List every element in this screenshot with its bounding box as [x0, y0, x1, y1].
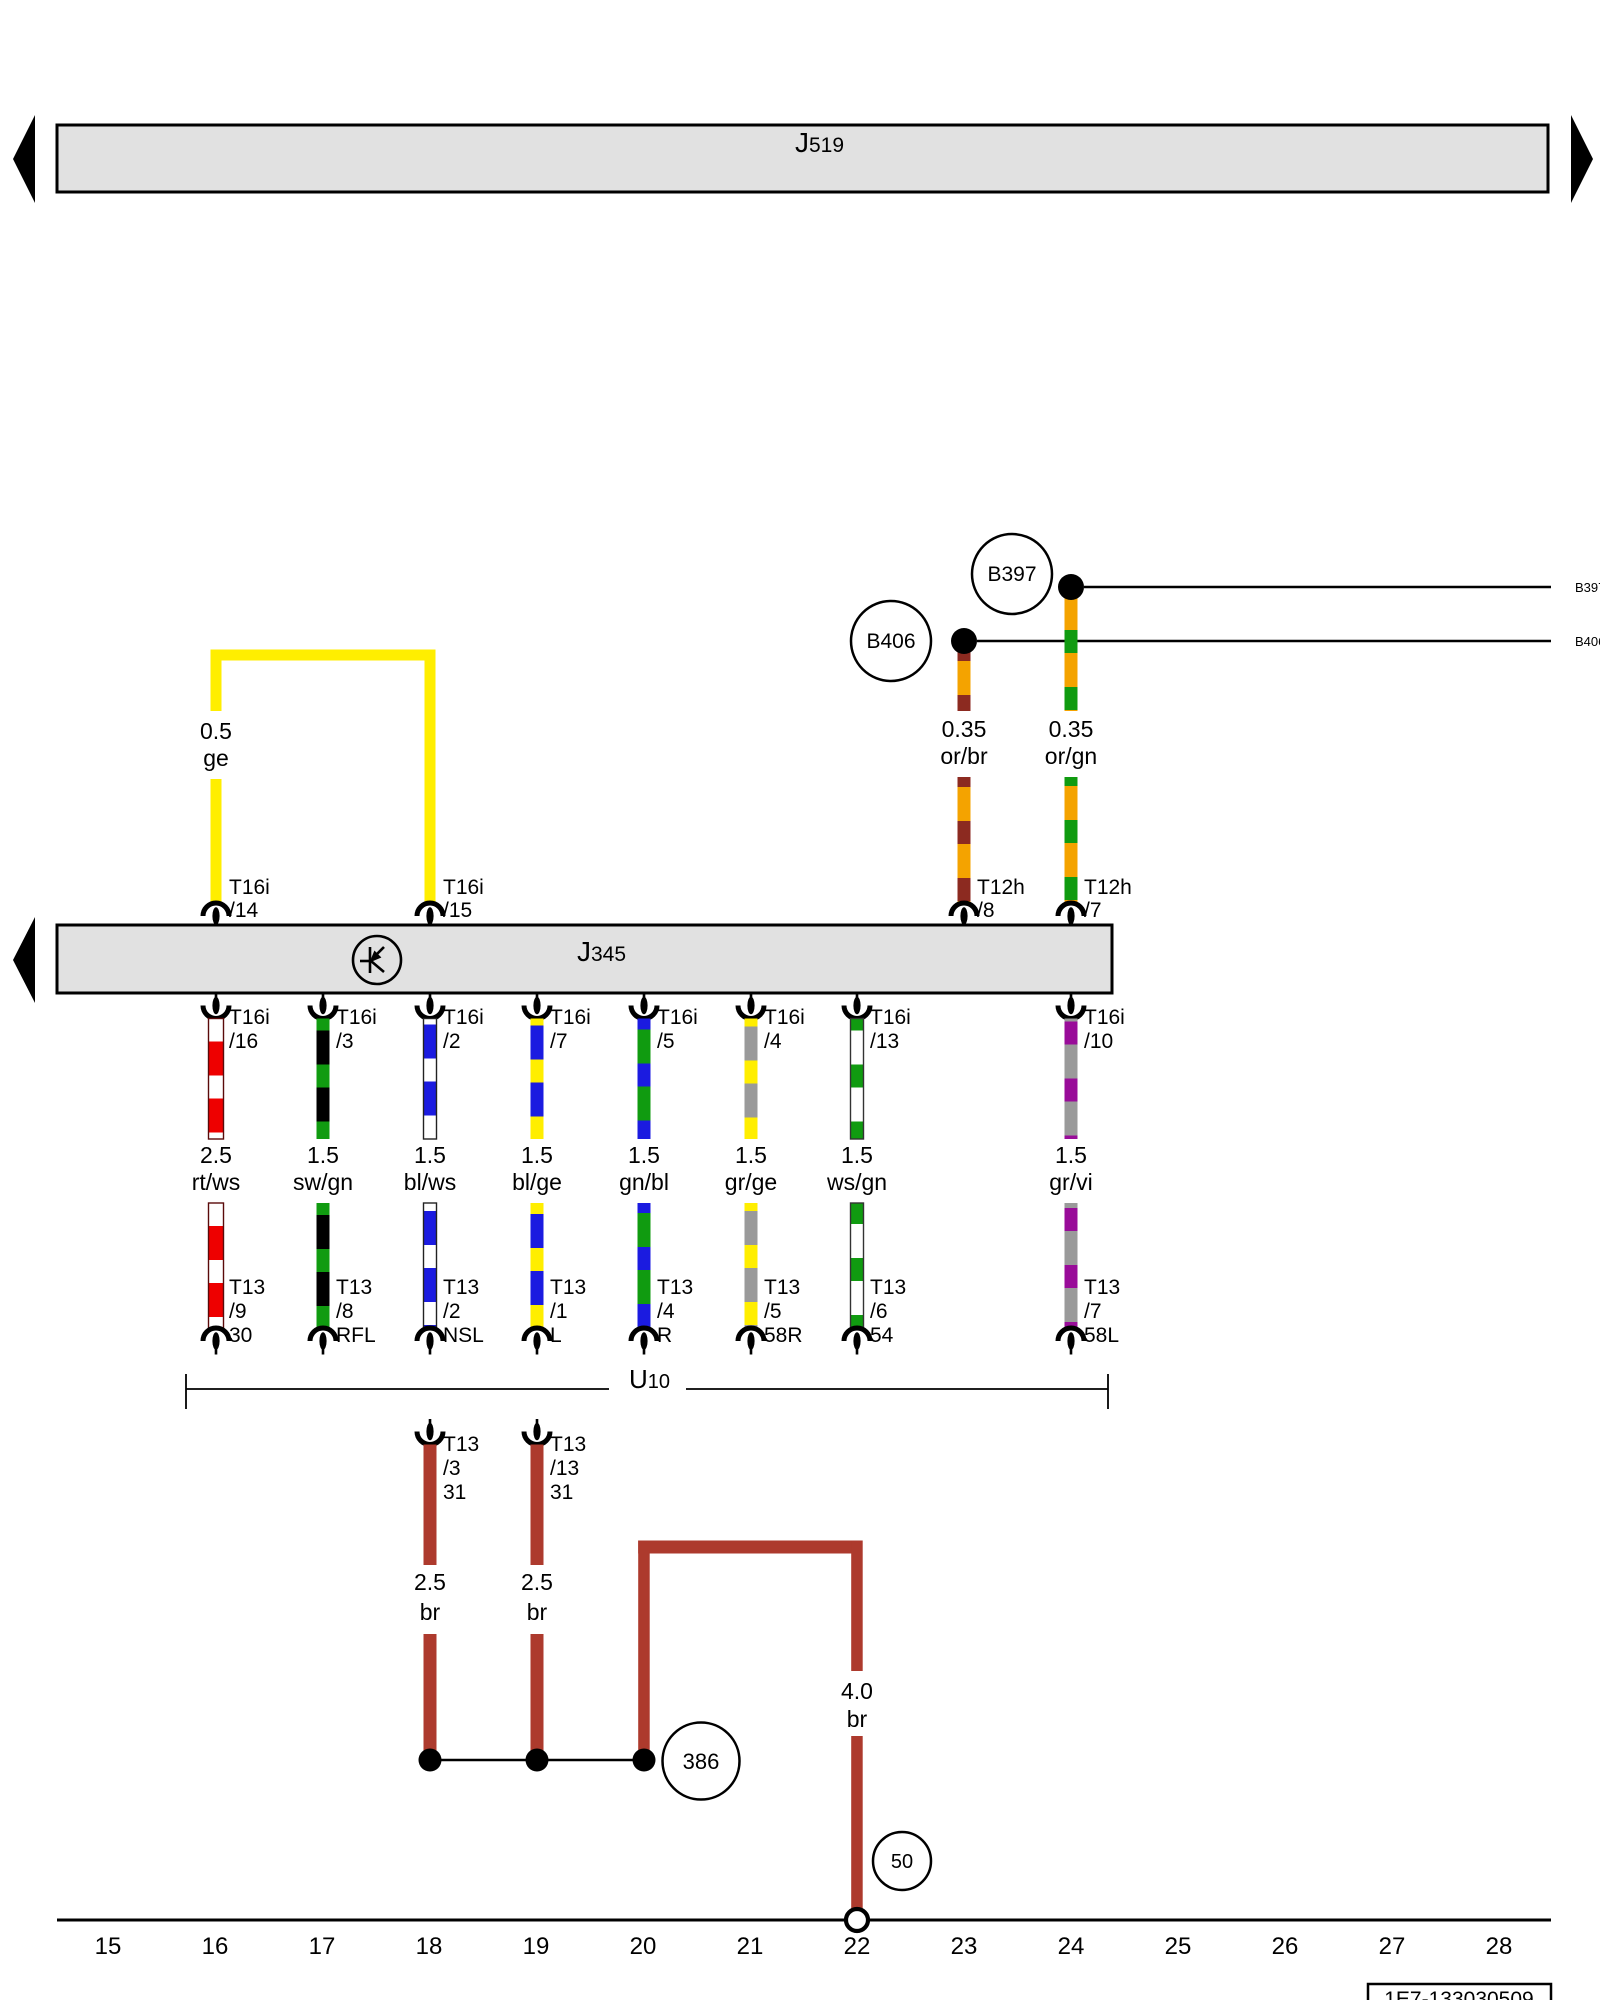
svg-text:T16i: T16i [229, 1006, 270, 1029]
svg-text:1E7-133030509: 1E7-133030509 [1384, 1988, 1533, 2000]
wire segment 1.5 gr/vi upper [1065, 1019, 1078, 1140]
svg-text:gr/ge: gr/ge [725, 1169, 777, 1195]
svg-text:0.5: 0.5 [200, 718, 232, 744]
svg-text:1.5: 1.5 [735, 1142, 767, 1168]
svg-text:T16i: T16i [229, 876, 270, 899]
wire to B397 (right) [1084, 586, 1551, 589]
wire segment 1.5 gr/ge upper [745, 1019, 758, 1140]
svg-text:/5: /5 [764, 1300, 782, 1323]
svg-text:or/gn: or/gn [1045, 743, 1097, 769]
svg-text:2.5: 2.5 [414, 1569, 446, 1595]
svg-text:L: L [550, 1324, 562, 1347]
wire segment 1.5 bl/ws upper [424, 1019, 437, 1140]
svg-text:/3: /3 [443, 1457, 461, 1480]
svg-text:/1: /1 [550, 1300, 568, 1323]
svg-text:br: br [527, 1599, 548, 1625]
connector pin T16i/3 [310, 993, 336, 1019]
node junction dot B406 [951, 628, 977, 654]
svg-text:or/br: or/br [940, 743, 988, 769]
wire segment 0.35 or/gn upper [1065, 587, 1078, 711]
svg-text:17: 17 [309, 1933, 336, 1960]
continuation arrow right of J519 [1571, 115, 1593, 203]
svg-text:T16i: T16i [336, 1006, 377, 1029]
wire segment 1.5 gr/ge lower [745, 1203, 758, 1328]
wire segment 0.5 ge left vertical lower [211, 779, 222, 903]
wire segment 2.5 br right lower [531, 1634, 544, 1760]
svg-text:T16i: T16i [764, 1006, 805, 1029]
svg-text:54: 54 [870, 1324, 894, 1347]
wire segment 0.35 or/gn lower [1065, 777, 1078, 903]
label T16i/16 text [229, 1006, 270, 1053]
svg-text:T13: T13 [870, 1276, 906, 1299]
svg-text:T12h: T12h [1084, 876, 1132, 899]
wire segment 0.35 or/br upper [958, 641, 971, 711]
connector pin T16i/14 [203, 903, 229, 930]
label T13/7 58L text [1084, 1276, 1120, 1347]
svg-text:T13: T13 [550, 1433, 586, 1456]
svg-text:gn/bl: gn/bl [619, 1169, 669, 1195]
label T16i/14 text [229, 876, 270, 922]
ground terminal ring at 22 [846, 1909, 868, 1931]
svg-text:18: 18 [416, 1933, 443, 1960]
label T13/1 L text [550, 1276, 586, 1347]
svg-text:T16i: T16i [443, 876, 484, 899]
sensor B406 circle [851, 601, 931, 681]
svg-text:T13: T13 [764, 1276, 800, 1299]
wire segment 0.35 or/br lower [958, 777, 971, 903]
connector pin T13/4 [631, 1328, 657, 1355]
continuation arrow left of J345 [13, 917, 35, 1003]
bottom grid rail line [57, 1919, 1551, 1922]
svg-text:/2: /2 [443, 1030, 461, 1053]
connector pin T16i/7 [524, 993, 550, 1019]
svg-text:T16i: T16i [443, 1006, 484, 1029]
svg-text:B406: B406 [866, 630, 915, 653]
svg-text:br: br [420, 1599, 441, 1625]
svg-text:/10: /10 [1084, 1030, 1113, 1053]
svg-text:24: 24 [1058, 1933, 1085, 1960]
svg-text:15: 15 [95, 1933, 122, 1960]
wire segment 2.5 br right upper [531, 1445, 544, 1566]
wire segment 2.5 br left upper [424, 1445, 437, 1566]
svg-text:/3: /3 [336, 1030, 354, 1053]
svg-text:31: 31 [443, 1481, 466, 1504]
label T13/3 31 text [443, 1433, 479, 1504]
svg-text:U10: U10 [629, 1364, 670, 1394]
svg-text:20: 20 [630, 1933, 657, 1960]
wire segment 1.5 sw/gn lower [317, 1203, 330, 1328]
wire segment 1.5 bl/ge upper [531, 1019, 544, 1140]
ground connection 386 circle [663, 1723, 740, 1800]
svg-text:gr/vi: gr/vi [1049, 1169, 1092, 1195]
junction dot at T13/13 wire [526, 1749, 549, 1772]
harness connector bracket U10 [186, 1374, 1108, 1409]
svg-text:22: 22 [844, 1933, 871, 1960]
svg-text:0.35: 0.35 [1049, 716, 1094, 742]
wire segment 0.5 ge left vertical upper [211, 650, 222, 711]
document number box 1E7-133030509 [1368, 1984, 1551, 2000]
connector pin T16i/2 [417, 993, 443, 1019]
svg-text:1.5: 1.5 [521, 1142, 553, 1168]
label T16i/4 text [764, 1006, 805, 1053]
label T13/6 54 text [870, 1276, 906, 1347]
wire segment 1.5 gn/bl lower [638, 1203, 651, 1328]
label T16i/5 text [657, 1006, 698, 1053]
svg-text:/4: /4 [657, 1300, 675, 1323]
svg-text:T16i: T16i [550, 1006, 591, 1029]
svg-text:ws/gn: ws/gn [826, 1169, 887, 1195]
svg-text:B397: B397 [1575, 580, 1600, 595]
wire segment 1.5 bl/ge lower [531, 1203, 544, 1328]
connector pin T13/8 [310, 1328, 336, 1355]
svg-text:25: 25 [1165, 1933, 1192, 1960]
connector pin T13/2 [417, 1328, 443, 1355]
connector pin T13/9 [203, 1328, 229, 1355]
wire segment 0.5 ge horizontal top [211, 650, 436, 661]
svg-text:/5: /5 [657, 1030, 675, 1053]
internal lamp-monitor symbol in J345 [353, 936, 401, 984]
label T16i/2 text [443, 1006, 484, 1053]
svg-text:/8: /8 [977, 899, 995, 922]
wire segment 1.5 bl/ws lower [424, 1203, 437, 1328]
svg-text:58L: 58L [1084, 1324, 1119, 1347]
svg-text:RFL: RFL [336, 1324, 376, 1347]
svg-text:R: R [657, 1324, 672, 1347]
wire segment 2.5 br left lower [424, 1634, 437, 1760]
connector pin T16i/15 [417, 903, 443, 930]
svg-text:/4: /4 [764, 1030, 782, 1053]
svg-text:50: 50 [891, 1851, 913, 1873]
label T16i/7 text [550, 1006, 591, 1053]
svg-text:T16i: T16i [657, 1006, 698, 1029]
svg-text:/7: /7 [1084, 899, 1102, 922]
connector pin T12h/8 [951, 903, 977, 930]
svg-text:27: 27 [1379, 1933, 1406, 1960]
control unit J519 bar [57, 125, 1548, 192]
svg-text:bl/ws: bl/ws [404, 1169, 456, 1195]
connector pin T13/3 [417, 1419, 443, 1445]
svg-text:1.5: 1.5 [628, 1142, 660, 1168]
wire segment 1.5 gn/bl upper [638, 1019, 651, 1140]
continuation arrow left of J519 [13, 115, 35, 203]
label T16i/13 text [870, 1006, 911, 1053]
wire ground bus line [430, 1759, 644, 1762]
label T13/9 30 text [229, 1276, 265, 1347]
label T16i/3 text [336, 1006, 377, 1053]
wire segment 4.0 br right vertical lower [851, 1736, 863, 1910]
svg-text:T13: T13 [657, 1276, 693, 1299]
connector pin T13/1 [524, 1328, 550, 1355]
junction dot at 4.0 br wire [633, 1749, 656, 1772]
label T12h/8 text [977, 876, 1025, 922]
label T13/5 58R text [764, 1276, 803, 1347]
svg-text:386: 386 [683, 1749, 720, 1774]
svg-text:16: 16 [202, 1933, 229, 1960]
connector pin T16i/10 [1058, 993, 1084, 1019]
junction dot at T13/3 wire [419, 1749, 442, 1772]
connector pin T16i/4 [738, 993, 764, 1019]
connector pin T16i/16 [203, 993, 229, 1019]
svg-text:sw/gn: sw/gn [293, 1169, 353, 1195]
svg-text:23: 23 [951, 1933, 978, 1960]
svg-text:rt/ws: rt/ws [192, 1169, 241, 1195]
svg-text:T12h: T12h [977, 876, 1025, 899]
svg-text:19: 19 [523, 1933, 550, 1960]
svg-text:31: 31 [550, 1481, 573, 1504]
connector pin T12h/7 [1058, 903, 1084, 930]
svg-text:NSL: NSL [443, 1324, 484, 1347]
connector pin T13/6 [844, 1328, 870, 1355]
svg-text:bl/ge: bl/ge [512, 1169, 562, 1195]
wire segment 0.5 ge right vertical [425, 650, 436, 904]
wire segment 2.5 rt/ws upper [209, 1019, 224, 1140]
svg-text:1.5: 1.5 [307, 1142, 339, 1168]
svg-text:/7: /7 [550, 1030, 568, 1053]
wire segment 1.5 ws/gn upper [851, 1019, 864, 1140]
wire segment 1.5 sw/gn upper [317, 1019, 330, 1140]
grid numbers 15-28 [95, 1933, 1513, 1960]
svg-text:/7: /7 [1084, 1300, 1102, 1323]
svg-text:26: 26 [1272, 1933, 1299, 1960]
connector pin T13/13 [524, 1419, 550, 1445]
svg-text:ge: ge [203, 745, 229, 771]
terminal 50 circle [873, 1832, 931, 1890]
svg-text:/16: /16 [229, 1030, 258, 1053]
svg-text:2.5: 2.5 [521, 1569, 553, 1595]
svg-text:/8: /8 [336, 1300, 354, 1323]
wire segment 4.0 br horizontal [638, 1541, 862, 1554]
wire segment 2.5 rt/ws lower [209, 1203, 224, 1328]
wire segment 1.5 ws/gn lower [851, 1203, 864, 1328]
svg-text:T13: T13 [336, 1276, 372, 1299]
svg-text:30: 30 [229, 1324, 252, 1347]
svg-text:28: 28 [1486, 1933, 1513, 1960]
svg-text:T16i: T16i [1084, 1006, 1125, 1029]
svg-text:4.0: 4.0 [841, 1678, 873, 1704]
svg-text:T16i: T16i [870, 1006, 911, 1029]
svg-text:B406: B406 [1575, 634, 1600, 649]
label T13/2 NSL text [443, 1276, 484, 1347]
wire segment 1.5 gr/vi lower [1065, 1203, 1078, 1328]
sensor B397 circle [972, 534, 1052, 614]
node junction dot B397 [1058, 574, 1084, 600]
svg-text:T13: T13 [443, 1276, 479, 1299]
label T12h/7 text [1084, 876, 1132, 922]
wire segment 4.0 br right vertical upper [851, 1541, 863, 1672]
svg-text:1.5: 1.5 [414, 1142, 446, 1168]
label T13/13 31 text [550, 1433, 586, 1504]
svg-text:1.5: 1.5 [1055, 1142, 1087, 1168]
label T16i/15 text [443, 876, 484, 922]
svg-text:1.5: 1.5 [841, 1142, 873, 1168]
svg-text:/15: /15 [443, 899, 472, 922]
svg-text:B397: B397 [987, 563, 1036, 586]
svg-text:T13: T13 [229, 1276, 265, 1299]
svg-text:0.35: 0.35 [942, 716, 987, 742]
connector pin T13/7 [1058, 1328, 1084, 1355]
svg-text:T13: T13 [550, 1276, 586, 1299]
svg-text:/9: /9 [229, 1300, 247, 1323]
svg-text:T13: T13 [443, 1433, 479, 1456]
svg-text:/13: /13 [550, 1457, 579, 1480]
svg-text:br: br [847, 1706, 868, 1732]
label T16i/10 text [1084, 1006, 1125, 1053]
svg-text:/14: /14 [229, 899, 259, 922]
connector pin T16i/5 [631, 993, 657, 1019]
control unit J345 bar [57, 925, 1112, 993]
wire to B406 (right) [977, 640, 1551, 643]
svg-text:2.5: 2.5 [200, 1142, 232, 1168]
connector pin T13/5 [738, 1328, 764, 1355]
svg-text:/2: /2 [443, 1300, 461, 1323]
svg-text:/13: /13 [870, 1030, 899, 1053]
label T13/4 R text [657, 1276, 693, 1347]
svg-text:21: 21 [737, 1933, 764, 1960]
wire segment 4.0 br riser [638, 1541, 650, 1761]
label T13/8 RFL text [336, 1276, 376, 1347]
svg-text:58R: 58R [764, 1324, 803, 1347]
svg-text:/6: /6 [870, 1300, 888, 1323]
connector pin T16i/13 [844, 993, 870, 1019]
svg-text:T13: T13 [1084, 1276, 1120, 1299]
